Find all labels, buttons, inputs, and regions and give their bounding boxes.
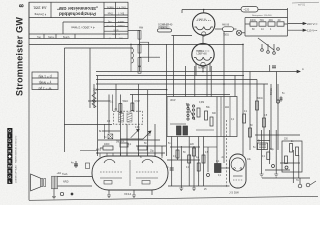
- svg-text:Netzspann. 110-240: Netzspann. 110-240: [252, 14, 272, 17]
- svg-text:„Strommeister GW“: „Strommeister GW“: [57, 6, 98, 11]
- svg-text:600Ω: 600Ω: [257, 98, 263, 100]
- svg-text:Gez. 4.7.: Gez. 4.7.: [116, 6, 126, 9]
- svg-text:Treib: Treib: [62, 173, 68, 176]
- svg-text:VF14: VF14: [124, 192, 132, 196]
- svg-text:AW 06: AW 06: [222, 24, 230, 27]
- svg-text:0,05: 0,05: [135, 127, 140, 129]
- svg-text:110 V≈=: 110 V≈=: [307, 29, 318, 33]
- svg-text:LDBF+80: LDBF+80: [197, 53, 208, 56]
- svg-text:Name: Name: [117, 20, 124, 23]
- svg-text:500kΩ: 500kΩ: [271, 88, 273, 95]
- svg-text:Tag: Tag: [107, 20, 112, 23]
- svg-text:NF|D: NF|D: [63, 181, 69, 184]
- svg-text:400Ω: 400Ω: [250, 20, 256, 22]
- svg-text:Tag: Tag: [37, 36, 42, 39]
- svg-text:γ = NWµ: γ = NWµ: [39, 81, 52, 85]
- svg-text:12.7.51: 12.7.51: [106, 24, 114, 26]
- svg-text:Gepr.: Gepr.: [107, 12, 113, 15]
- svg-text:Ser/AT: Ser/AT: [162, 24, 170, 27]
- svg-text:4 Zeichng.: 4 Zeichng.: [34, 13, 46, 17]
- svg-text:A: A: [302, 67, 304, 71]
- svg-text:0,5M: 0,5M: [135, 101, 140, 103]
- svg-text:TA: TA: [296, 179, 299, 182]
- svg-text:Juli 1951: Juli 1951: [33, 6, 47, 10]
- svg-text:NWW: NWW: [198, 66, 206, 70]
- svg-text:220 V≈=: 220 V≈=: [307, 22, 318, 26]
- svg-text:Maßst.: Maßst.: [106, 6, 114, 9]
- svg-text:4 x 150Ω / 2 Watt: 4 x 150Ω / 2 Watt: [71, 26, 94, 30]
- svg-text:2MΩ: 2MΩ: [93, 90, 98, 92]
- svg-text:Ers. f.: Ers. f.: [118, 12, 125, 15]
- svg-text:70Ω: 70Ω: [260, 20, 265, 22]
- svg-text:750Ω: 750Ω: [223, 34, 229, 37]
- svg-text:4Ω: 4Ω: [278, 20, 281, 22]
- svg-text:β = 1 Wµ: β = 1 Wµ: [38, 75, 51, 79]
- svg-text:2kΩ: 2kΩ: [225, 107, 229, 109]
- svg-text:25µ: 25µ: [150, 151, 155, 153]
- svg-text:50kΩ: 50kΩ: [123, 101, 129, 103]
- svg-text:Strommeister GW: Strommeister GW: [15, 17, 25, 96]
- svg-text:0,3M: 0,3M: [199, 102, 204, 104]
- svg-text:Bearb.: Bearb.: [63, 36, 70, 39]
- svg-text:50µ: 50µ: [270, 149, 275, 151]
- svg-text:Prinzipschaltbild: Prinzipschaltbild: [59, 12, 96, 17]
- svg-text:8: 8: [19, 4, 26, 8]
- svg-text:4000: 4000: [96, 150, 102, 152]
- svg-text:Blatt: Blatt: [113, 29, 118, 32]
- svg-text:1MΩ: 1MΩ: [116, 142, 121, 144]
- svg-text:Dr: Dr: [258, 140, 261, 143]
- svg-text:AW: AW: [139, 26, 144, 30]
- svg-text:Nr. 0451: Nr. 0451: [111, 33, 120, 36]
- svg-text:40Ω: 40Ω: [269, 20, 274, 22]
- svg-text:mV 01: mV 01: [298, 4, 306, 7]
- svg-text:W = 1 µd: W = 1 µd: [38, 87, 51, 91]
- svg-text:V-AB1 90: V-AB1 90: [197, 18, 207, 21]
- svg-text:LOEWE-OPTA AG · FABRIK BERLIN-: LOEWE-OPTA AG · FABRIK BERLIN-STEGLITZ: [15, 135, 18, 183]
- svg-text:J 5 DW: J 5 DW: [229, 191, 239, 195]
- svg-text:4000: 4000: [104, 143, 110, 146]
- svg-text:+4Ω: +4Ω: [57, 172, 62, 175]
- svg-text:Name: Name: [48, 36, 55, 39]
- svg-text:100-222: 100-222: [161, 28, 170, 30]
- svg-text:≈220: ≈220: [244, 8, 250, 12]
- svg-text:UKW: UKW: [170, 100, 176, 102]
- svg-text:Krause: Krause: [117, 24, 125, 27]
